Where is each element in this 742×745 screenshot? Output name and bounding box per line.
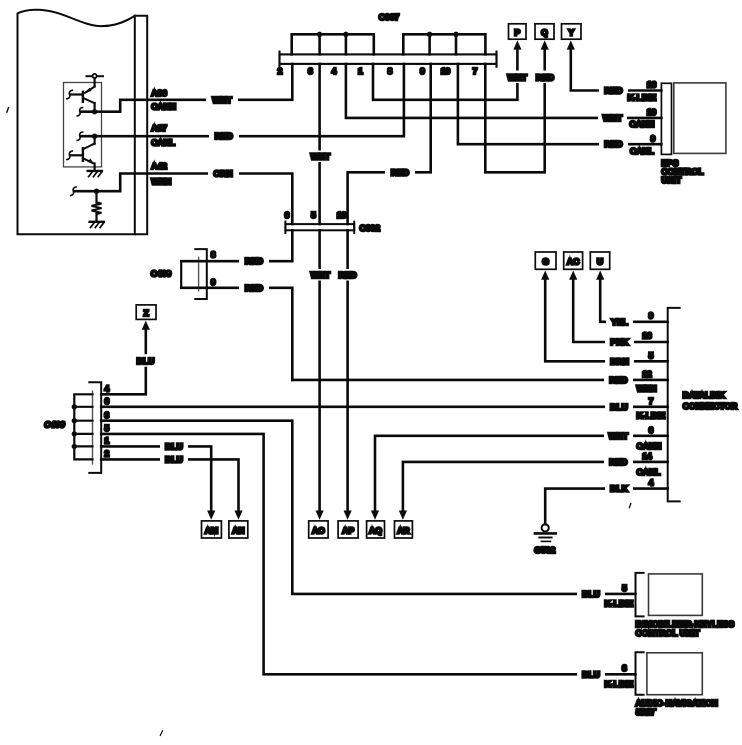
arrow into connector U — [596, 271, 604, 280]
wire DATALINK pin 16 PNK to connector AC — [573, 277, 668, 348]
connector AQ box — [367, 521, 385, 538]
svg-text:2: 2 — [105, 449, 110, 459]
connector C409 upper label — [151, 269, 172, 279]
svg-text:CANH: CANH — [630, 119, 655, 129]
svg-text:10: 10 — [441, 66, 451, 76]
resistor R (termination) — [92, 191, 102, 220]
svg-text:WHT: WHT — [507, 73, 527, 83]
junction dot bridge pin 9 — [427, 32, 432, 37]
wire C302 pin 5 WHT to connector AO — [306, 230, 334, 512]
connector C409 (upper joint connector) bracket — [195, 249, 207, 299]
svg-text:RED: RED — [339, 270, 357, 280]
svg-text:RED: RED — [391, 167, 409, 177]
wire A42 ORN to C302 pin 6 — [147, 168, 292, 224]
svg-text:U: U — [597, 257, 603, 267]
svg-text:CANL: CANL — [637, 467, 661, 477]
svg-text:AM: AM — [205, 525, 218, 535]
svg-text:UNIT: UNIT — [636, 707, 657, 717]
svg-text:9: 9 — [651, 133, 656, 143]
svg-text:WHT: WHT — [212, 95, 232, 105]
svg-text:C307: C307 — [379, 12, 400, 22]
wire C307 pin 9 RED to C302 pin 13 — [348, 64, 431, 224]
svg-text:K-LINE: K-LINE — [637, 411, 666, 421]
svg-text:6: 6 — [105, 396, 110, 406]
stray scan mark bottom-left — [160, 731, 162, 736]
svg-text:CANL: CANL — [151, 138, 175, 148]
stray scan mark left — [7, 108, 9, 113]
wire C307 pin 1 WHT to connector P — [373, 47, 532, 100]
svg-text:WHT: WHT — [311, 270, 331, 280]
pin A37 label — [151, 123, 175, 148]
C307 pin numbers — [278, 66, 478, 76]
svg-text:UNIT: UNIT — [661, 175, 682, 185]
svg-text:C302: C302 — [360, 223, 381, 233]
svg-text:1: 1 — [358, 66, 363, 76]
EPS pin 10 CANH label — [630, 107, 657, 129]
arrow into connector G — [541, 271, 549, 280]
svg-text:CONTROL UNIT: CONTROL UNIT — [636, 628, 701, 638]
wire WEN RED to DATALINK pin 12 — [292, 374, 667, 386]
junction dot rail pin 5 — [72, 431, 77, 436]
connector C307 label — [379, 12, 400, 22]
svg-text:C409: C409 — [151, 269, 172, 279]
svg-text:AP: AP — [342, 525, 354, 535]
svg-text:14: 14 — [642, 451, 652, 461]
svg-text:3: 3 — [308, 66, 313, 76]
connector C302 body bar — [285, 222, 354, 233]
audio-navigation unit box — [647, 653, 702, 695]
svg-text:3: 3 — [622, 663, 627, 673]
wire C307 pin 7 RED to connector Q — [485, 47, 559, 172]
EPS control unit box — [674, 83, 726, 153]
arrow into connector AM — [207, 511, 215, 520]
wire C409 pin 4 BLU to connector Z — [101, 327, 160, 394]
connector U box — [590, 252, 609, 269]
svg-text:RED: RED — [215, 131, 233, 141]
DATALINK pin 14 CANL label — [637, 451, 661, 477]
wire C409 pin 1 BLU to connector AM — [101, 441, 211, 512]
pin A42 label — [151, 161, 171, 186]
connector Z box — [136, 305, 156, 320]
ground G502 (earth symbol) — [534, 524, 556, 554]
connector C409 lower label — [44, 420, 65, 430]
svg-text:C409: C409 — [44, 420, 65, 430]
IMMOBILIZER-KEYLESS CONTROL UNIT label — [636, 619, 735, 638]
svg-text:YEL: YEL — [611, 317, 628, 327]
svg-text:A37: A37 — [151, 123, 167, 133]
svg-text:AR: AR — [397, 525, 410, 535]
DATALINK pin 16 number — [642, 331, 652, 341]
svg-text:RED: RED — [609, 457, 627, 467]
node CANL: junction dot and internal wire to pin A37 — [77, 132, 147, 141]
wire C302 pin 6 RED to C409 pin 8 — [181, 230, 292, 267]
ECU module outline (top-left unit with torn top edge) — [18, 10, 135, 234]
svg-text:Q: Q — [541, 27, 548, 37]
svg-text:WEN: WEN — [637, 383, 657, 393]
svg-text:CANH: CANH — [151, 102, 176, 112]
EPS CONTROL UNIT label — [661, 158, 703, 185]
wire C409 pin 9 RED to DATALINK WEN pin 12 — [181, 282, 292, 380]
arrow into connector AQ — [371, 511, 379, 520]
svg-text:RED: RED — [536, 73, 554, 83]
svg-text:BLU: BLU — [137, 356, 155, 366]
svg-text:CANL: CANL — [630, 146, 654, 156]
wire C409 pin 3 BLU to immobilizer K-LINE pin 5 — [101, 421, 635, 600]
connector C307 body bar — [280, 52, 497, 67]
wire DATALINK pin 9 YEL to connector U — [600, 277, 668, 328]
wire connector Y RED to EPS K-LINE pin 16 — [571, 47, 662, 96]
svg-text:12: 12 — [642, 369, 652, 379]
svg-text:5: 5 — [105, 423, 110, 433]
connector P box — [509, 24, 527, 39]
terminal post (open circle) above Q1 — [87, 74, 104, 87]
svg-text:BLK: BLK — [610, 484, 628, 494]
connector G box — [535, 252, 556, 269]
connector AO box — [309, 521, 328, 538]
immobilizer pin 5 K-LINE label — [605, 583, 634, 609]
svg-text:BLU: BLU — [610, 402, 628, 412]
arrow into connector AP — [344, 511, 352, 520]
immobilizer connector bracket — [636, 573, 644, 617]
svg-text:P: P — [514, 27, 520, 37]
svg-text:4: 4 — [105, 384, 110, 394]
svg-text:K-LINE: K-LINE — [605, 599, 634, 609]
svg-text:9: 9 — [420, 66, 425, 76]
wire A37 RED to C307 pin 8 — [147, 64, 404, 142]
DATALINK pin 9 number — [649, 311, 654, 321]
pin A36 label — [151, 88, 176, 112]
wire C307 pin 3 WHT to C302 pin 5 — [306, 64, 334, 224]
connector AR box — [395, 521, 413, 538]
svg-text:AC: AC — [567, 257, 579, 267]
audio pin 3 K-LINE label — [605, 663, 634, 689]
arrow into connector AC — [569, 271, 577, 280]
DATALINK pin 4 number — [649, 478, 654, 488]
svg-text:CONNECTOR: CONNECTOR — [683, 401, 738, 411]
svg-text:Z: Z — [143, 308, 148, 318]
wire C307 pin 10 RED to EPS CANL pin 9 — [458, 64, 662, 150]
node CANH: junction dot and internal wire to pin A36 — [77, 100, 147, 116]
svg-text:AN: AN — [232, 525, 244, 535]
svg-text:WHT: WHT — [311, 152, 331, 162]
ECU connector bracket (right face of module) — [135, 16, 147, 234]
wire DATALINK CANL pin 14 RED to connector AR — [403, 456, 668, 512]
arrow into connector AO — [316, 511, 324, 520]
connector AC box — [564, 252, 583, 269]
svg-text:RED: RED — [245, 283, 263, 293]
svg-text:DATALINK: DATALINK — [683, 390, 726, 400]
svg-text:BLU: BLU — [582, 669, 600, 679]
junction dot rail pin 1 — [72, 444, 77, 449]
svg-text:RED: RED — [245, 256, 263, 266]
connector Y box — [562, 24, 582, 39]
svg-text:RED: RED — [604, 139, 622, 149]
DATALINK CONNECTOR label — [683, 390, 738, 411]
svg-text:2: 2 — [278, 66, 283, 76]
EPS pin 16 K-LINE label — [628, 80, 657, 103]
C409 upper joint bus rail — [181, 261, 198, 288]
immobilizer-keyless control unit box — [649, 574, 703, 616]
svg-text:BLU: BLU — [165, 454, 183, 464]
svg-text:13: 13 — [337, 210, 347, 220]
C307 upper bridge bus (pins 2-3-4-1) — [292, 34, 374, 54]
audio connector bracket — [636, 652, 644, 694]
svg-text:AO: AO — [312, 525, 325, 535]
arrow into connector AN — [234, 511, 242, 520]
svg-text:Y: Y — [568, 27, 574, 37]
svg-text:7: 7 — [649, 396, 654, 406]
wire DATALINK pin 5 BRN to connector G — [545, 277, 668, 367]
svg-text:BRN: BRN — [610, 356, 629, 366]
svg-text:CANH: CANH — [637, 441, 662, 451]
arrow into connector Z — [142, 321, 150, 330]
C307 upper bridge bus (pins 8-9-10-7) — [403, 34, 485, 54]
DATALINK pin 7 K-LINE label — [637, 396, 666, 421]
junction dot rail pin 6 — [72, 404, 77, 409]
svg-text:8: 8 — [211, 250, 216, 260]
transistor Q2 (NPN, lower) — [67, 136, 95, 170]
wire C307 pin 4 WHT to EPS CANH pin 10 — [346, 64, 662, 124]
svg-text:RED: RED — [604, 86, 622, 96]
svg-text:BLU: BLU — [165, 441, 183, 451]
svg-text:G: G — [542, 257, 549, 267]
wire DATALINK pin 4 BLK to ground G502 — [545, 483, 668, 524]
junction dot bridge pin 3 — [317, 32, 322, 37]
svg-text:6: 6 — [649, 425, 654, 435]
svg-text:3: 3 — [105, 410, 110, 420]
EPS pin 9 CANL label — [630, 133, 656, 156]
svg-text:A42: A42 — [151, 161, 167, 171]
svg-text:5: 5 — [311, 210, 316, 220]
arrow into connector Y — [567, 40, 575, 49]
svg-text:16: 16 — [642, 331, 652, 341]
svg-text:9: 9 — [211, 277, 216, 287]
arrow into connector P — [513, 40, 521, 49]
ground (chassis) under Q2 — [88, 171, 102, 177]
svg-text:10: 10 — [647, 107, 657, 117]
svg-text:RED: RED — [609, 375, 627, 385]
arrow into connector Q — [541, 40, 549, 49]
connector C302 label — [360, 223, 381, 233]
DATALINK pin 5 number — [649, 350, 654, 360]
EPS connector (thin receptacle) — [661, 83, 671, 154]
stray scan mark near datalink — [629, 504, 630, 508]
wire C409 pin 5 BLU to audio K-LINE pin 3 — [101, 434, 635, 680]
C409 lower joint bus rail — [74, 394, 92, 459]
svg-text:5: 5 — [622, 583, 627, 593]
svg-text:G502: G502 — [534, 545, 555, 555]
svg-text:4: 4 — [332, 66, 337, 76]
junction dot bridge pin 4 — [343, 32, 348, 37]
junction dot rail pin 3 — [72, 418, 77, 423]
transistor Q1 (PNP, upper) — [67, 87, 95, 112]
svg-text:BLU: BLU — [582, 589, 600, 599]
svg-text:PNK: PNK — [610, 337, 629, 347]
svg-text:6: 6 — [285, 210, 290, 220]
C409 lower pin numbers — [105, 384, 110, 459]
svg-text:ORN: ORN — [213, 169, 232, 179]
connector AP box — [338, 521, 358, 538]
DATALINK pin 12 WEN label — [637, 369, 657, 393]
svg-text:WHT: WHT — [609, 431, 629, 441]
C409 upper pin numbers — [211, 250, 216, 287]
DATALINK connector bracket — [668, 308, 680, 502]
svg-text:K-LINE: K-LINE — [605, 679, 634, 689]
svg-text:K-LINE: K-LINE — [628, 93, 657, 103]
svg-text:8: 8 — [388, 66, 393, 76]
svg-text:4: 4 — [649, 478, 654, 488]
connector C409 (lower joint connector) bracket — [89, 382, 101, 473]
wire C409 pin 2 BLU to connector AN — [101, 454, 238, 512]
AUDIO-NAVIGATION UNIT label — [636, 698, 718, 717]
svg-text:WEN: WEN — [151, 176, 171, 186]
svg-text:9: 9 — [649, 311, 654, 321]
svg-text:A36: A36 — [151, 88, 167, 98]
connector Q box — [535, 24, 554, 39]
svg-text:AQ: AQ — [369, 525, 382, 535]
wire DATALINK CANH pin 6 WHT to connector AQ — [375, 430, 668, 512]
svg-text:5: 5 — [649, 350, 654, 360]
svg-text:7: 7 — [473, 66, 478, 76]
node WEN: internal wire, junction dot, step to pin A42 — [71, 174, 147, 196]
svg-text:WHT: WHT — [603, 113, 623, 123]
DATALINK pin 6 CANH label — [637, 425, 662, 451]
connector AM box — [202, 521, 222, 538]
connector AN box — [229, 521, 248, 538]
C302 pin numbers — [285, 210, 347, 220]
wire A36 WHT to C307 pin 2 — [147, 64, 292, 106]
wire C409 pin 6 BLU to DATALINK K-LINE pin 7 — [101, 401, 668, 413]
transistor pair enclosure (inner component box) — [64, 83, 102, 167]
wire C302 pin 13 RED to connector AP — [333, 230, 362, 512]
svg-text:1: 1 — [105, 436, 110, 446]
ground (chassis) under resistor R — [90, 222, 104, 228]
junction dot bridge pin 10 — [453, 32, 458, 37]
svg-text:16: 16 — [647, 80, 657, 90]
arrow into connector AR — [399, 511, 407, 520]
